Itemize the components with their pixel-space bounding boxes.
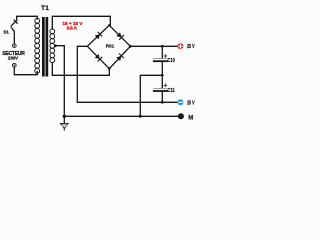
diode D lower-left [95, 54, 102, 61]
transformer T1 primary winding [35, 18, 40, 73]
transformer T1 core [42, 17, 48, 77]
svg-text:T1: T1 [41, 5, 49, 12]
svg-text:3.5 A: 3.5 A [67, 25, 78, 31]
wire cap midpoint to ground rail [140, 75, 162, 116]
bridge rectifier RS1 arms [87, 25, 130, 68]
wire secondary bottom to bridge bottom [52, 63, 109, 76]
terminal upper (secteur) [12, 44, 16, 48]
diode D upper-left [95, 32, 102, 39]
svg-text:RS1: RS1 [106, 44, 115, 49]
node C10 top [161, 45, 164, 48]
svg-text:230V: 230V [8, 55, 19, 60]
terminal lower (secteur) [12, 64, 16, 68]
switch S1 [11, 16, 17, 43]
svg-text:C11: C11 [168, 88, 175, 94]
terminal M [178, 113, 184, 119]
wire center tap to ground rail [55, 46, 64, 117]
ground rail (0V) [64, 115, 177, 117]
wire primary top run [17, 16, 38, 19]
node bridge top [108, 24, 110, 26]
capacitor C10 [154, 46, 167, 75]
node cap midpoint [161, 74, 164, 77]
wire positive rail [130, 45, 177, 47]
wire primary bottom run [14, 67, 37, 74]
node center tap [54, 44, 57, 47]
terminal +25V [177, 43, 183, 49]
svg-text:M: M [188, 115, 193, 121]
diode D upper-right [116, 32, 123, 39]
label plus C11 [164, 84, 167, 87]
node C11 bottom [161, 101, 164, 104]
node ground junction [63, 115, 66, 118]
capacitor C11 [154, 75, 167, 102]
svg-text:25 V: 25 V [187, 44, 195, 50]
svg-text:C10: C10 [168, 58, 175, 64]
label plus C10 [164, 55, 167, 58]
node bridge bottom [108, 67, 111, 70]
diode D lower-right [116, 54, 123, 61]
transformer T1 secondary winding [50, 29, 55, 63]
node cap mid on ground rail [139, 115, 142, 118]
terminal -25V [177, 99, 183, 105]
node bridge right [129, 45, 132, 48]
ground symbol [60, 116, 68, 130]
wire bridge left to negative rail [77, 46, 177, 102]
svg-text:25 V: 25 V [187, 100, 195, 106]
wire secondary top to bridge [52, 16, 110, 29]
svg-text:S1: S1 [3, 29, 9, 34]
